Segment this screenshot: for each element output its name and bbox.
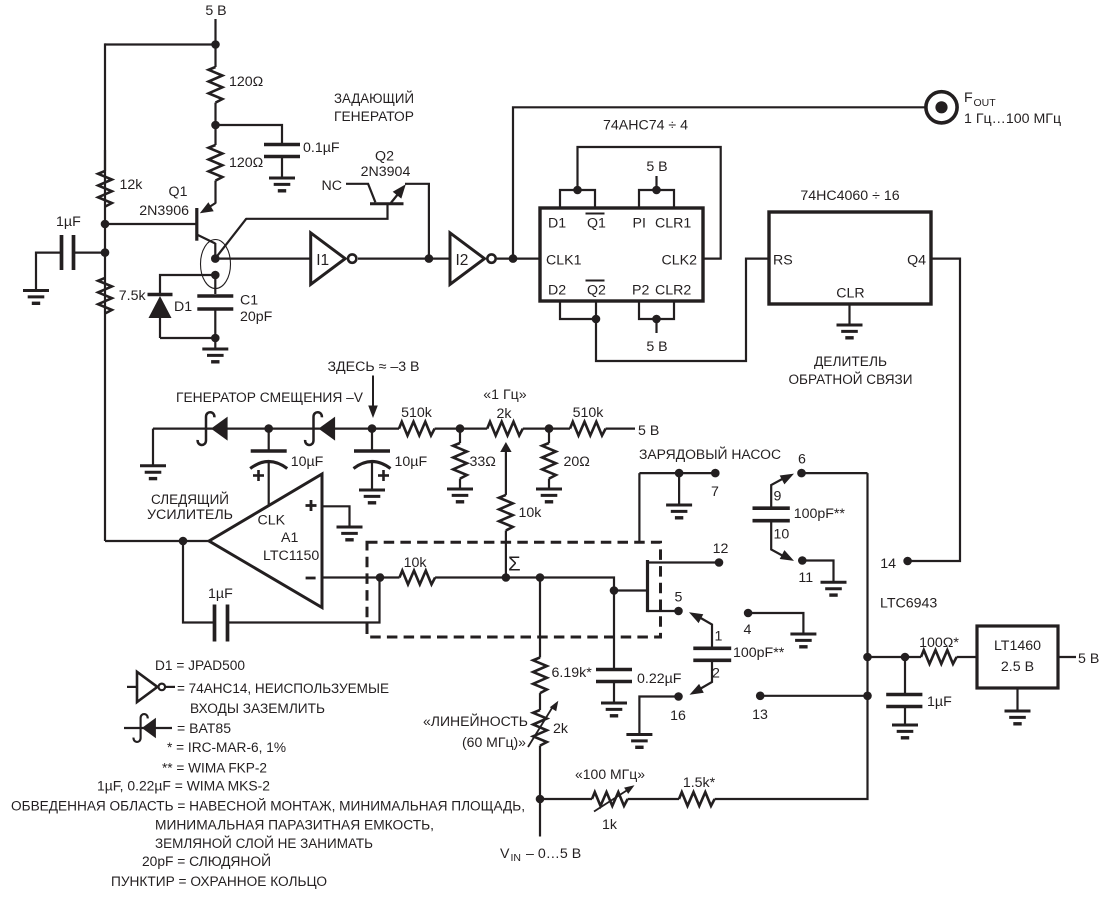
node pin13 — [756, 692, 765, 701]
wire output — [105, 540, 209, 542]
node sum junction — [502, 573, 511, 582]
resistor 120ohm lower — [209, 125, 264, 192]
wire plus input — [322, 506, 350, 527]
wire Q4 to pin14 — [910, 259, 960, 561]
label 5V at CLR2 — [646, 339, 667, 355]
pin label P2 — [632, 283, 649, 299]
resistor 6.19k — [533, 578, 592, 711]
svg-text:13: 13 — [752, 707, 768, 723]
svg-text:CLR2: CLR2 — [655, 283, 691, 299]
node junction PICLR1 — [652, 186, 661, 195]
wire top-left horizontal — [105, 43, 216, 45]
legend area line1 — [11, 797, 525, 815]
wire minus input — [322, 576, 400, 578]
pin label D2 — [548, 283, 566, 299]
node collector junction — [211, 254, 220, 263]
label 74HC4060 title — [800, 188, 899, 204]
resistor 100ohm — [919, 635, 959, 664]
label 74AHC74 title — [603, 118, 688, 134]
svg-text:D2: D2 — [548, 283, 566, 299]
svg-text:4: 4 — [744, 622, 752, 638]
svg-text:74AHC74 ÷ 4: 74AHC74 ÷ 4 — [603, 118, 688, 134]
svg-text:1k: 1k — [602, 817, 618, 833]
label sigma — [508, 553, 521, 576]
wire 5V stem — [214, 19, 216, 45]
svg-text:ОБВЕДЕННАЯ ОБЛАСТЬ = НАВЕСНОЙ: ОБВЕДЕННАЯ ОБЛАСТЬ = НАВЕСНОЙ МОНТАЖ, МИ… — [11, 797, 525, 815]
svg-text:10µF: 10µF — [291, 454, 324, 470]
svg-text:Q2: Q2 — [587, 283, 606, 299]
IC U2 74HC4060 box — [769, 212, 931, 304]
label here -3V — [327, 359, 419, 375]
wire reg output — [1058, 656, 1076, 658]
svg-text:33Ω: 33Ω — [470, 454, 496, 470]
svg-text:C1: C1 — [240, 293, 258, 309]
wire pin7 row — [639, 472, 715, 474]
legend dashed — [111, 874, 327, 890]
capacitor 0.1uF — [264, 140, 340, 157]
wire reg gnd stem — [1016, 688, 1018, 711]
label pin10 — [774, 527, 790, 543]
legend inverter text — [177, 681, 389, 717]
ground at pin7 — [666, 505, 692, 518]
pin label CLK1 — [546, 253, 582, 269]
label pin7 — [711, 484, 719, 500]
legend WIMA FKP — [162, 761, 267, 777]
svg-text:«100 МГц»: «100 МГц» — [575, 767, 645, 783]
svg-text:2N3904: 2N3904 — [361, 164, 411, 180]
svg-text:Q1: Q1 — [169, 184, 188, 200]
svg-text:D1: D1 — [548, 216, 566, 232]
svg-text:74HC4060 ÷ 16: 74HC4060 ÷ 16 — [800, 188, 899, 204]
svg-text:14: 14 — [880, 556, 896, 572]
svg-text:Q4: Q4 — [907, 253, 926, 269]
label pin16 — [670, 708, 686, 724]
potentiometer 1k 100MHz — [540, 767, 645, 833]
svg-text:1µF, 0.22µF = WIMA MKS-2: 1µF, 0.22µF = WIMA MKS-2 — [97, 779, 270, 795]
ground under C1 — [202, 349, 228, 362]
wire rail to 100ohm — [868, 656, 922, 658]
svg-text:ДЕЛИТЕЛЬ: ДЕЛИТЕЛЬ — [814, 354, 887, 370]
svg-text:F: F — [964, 90, 973, 106]
svg-text:– 0…5 В: – 0…5 В — [526, 846, 581, 862]
svg-text:OUT: OUT — [974, 97, 997, 109]
node pin16 — [674, 692, 683, 701]
node junction rail pin13 — [863, 692, 872, 701]
node junction 5V rail — [211, 40, 220, 49]
inverter I2 — [450, 233, 496, 285]
svg-text:D1 = JPAD500: D1 = JPAD500 — [155, 658, 245, 674]
wire Q2 emitter drop — [405, 184, 429, 259]
resistor 120ohm upper — [209, 45, 264, 126]
wire D1-Q1 bracket — [560, 190, 595, 208]
node junction D2Q2 — [592, 315, 601, 324]
label divider — [789, 354, 913, 388]
svg-text:20pF: 20pF — [240, 309, 273, 325]
wire 5V stub bottom — [655, 319, 657, 333]
wire D1 bottom — [160, 337, 215, 339]
wire to 0.1uF cap — [216, 125, 283, 145]
wire pin12 lead — [648, 561, 720, 563]
legend area line3 — [155, 834, 373, 852]
wire 0.1uF to ground — [281, 157, 283, 179]
svg-text:10: 10 — [774, 527, 790, 543]
wire Q2 to RS — [596, 259, 769, 361]
node pin6 — [797, 469, 806, 478]
legend IRC — [167, 740, 286, 756]
node junction rail reg — [863, 653, 872, 662]
op-amp A1 LTC1150 — [209, 474, 322, 608]
wire to D1 — [160, 275, 215, 293]
resistor 510k first — [399, 405, 435, 436]
regulator LT1460 box — [977, 626, 1058, 688]
wire 10k to sum — [435, 576, 540, 578]
capacitor C1 20pF — [197, 275, 272, 338]
svg-text:LT1460: LT1460 — [994, 638, 1041, 654]
svg-text:CLR: CLR — [836, 286, 864, 302]
svg-text:2k: 2k — [553, 721, 569, 737]
node junction 20ohm — [545, 424, 554, 433]
wire pin4 gnd — [748, 613, 803, 634]
potentiometer 2k 1Hz — [487, 406, 523, 495]
node pin5 — [674, 607, 683, 616]
svg-text:7.5k: 7.5k — [119, 288, 147, 304]
svg-text:I2: I2 — [456, 252, 469, 269]
IC U1 74AHC74 box — [540, 208, 703, 301]
ground under 1uF out — [892, 725, 918, 738]
ground under regulator — [1005, 711, 1031, 724]
label bias gen title — [176, 390, 364, 406]
node C1 ground junction — [211, 334, 220, 343]
wire C1 gnd stem — [214, 338, 216, 349]
svg-text:0.22µF: 0.22µF — [637, 671, 682, 687]
svg-text:IN: IN — [511, 852, 522, 864]
svg-text:(60 МГц)»: (60 МГц)» — [462, 735, 526, 751]
node junction pin7 gnd — [675, 469, 684, 478]
node junction 33ohm — [456, 424, 465, 433]
svg-text:5 В: 5 В — [646, 159, 667, 175]
svg-text:2N3906: 2N3906 — [139, 203, 189, 219]
svg-text:ЗДЕСЬ ≈ –3 В: ЗДЕСЬ ≈ –3 В — [327, 359, 419, 375]
ground under 1uF input — [23, 291, 49, 304]
svg-text:2k: 2k — [497, 406, 513, 422]
ground at pin4 — [790, 634, 816, 647]
ground at pin11 — [821, 582, 847, 595]
wire to pin bar — [614, 589, 648, 591]
svg-text:10µF: 10µF — [395, 454, 428, 470]
pin label Q2bar — [586, 281, 607, 299]
svg-text:2.5 В: 2.5 В — [1001, 659, 1034, 675]
wire pin bar — [646, 560, 649, 612]
power 5V label top — [205, 3, 226, 19]
wire sum right — [540, 578, 614, 591]
node pin14 — [903, 557, 912, 566]
legend inverter symbol — [127, 672, 175, 702]
node junction 120ohm mid — [211, 121, 220, 130]
label cap2 pin2 — [712, 666, 720, 682]
svg-text:ЗЕМЛЯНОЙ СЛОЙ НЕ ЗАНИМАТЬ: ЗЕМЛЯНОЙ СЛОЙ НЕ ЗАНИМАТЬ — [155, 834, 373, 852]
label 5V out — [1078, 651, 1099, 667]
capacitor 100pF flying upper — [753, 506, 846, 522]
wire I1 to I2 — [358, 258, 450, 260]
svg-text:6: 6 — [798, 452, 806, 468]
svg-text:5 В: 5 В — [646, 339, 667, 355]
ground under CLR — [837, 325, 863, 338]
svg-text:* = IRC-MAR-6, 1%: * = IRC-MAR-6, 1% — [167, 740, 286, 756]
svg-text:100pF**: 100pF** — [733, 645, 785, 661]
wire P2-CLR2 bracket — [639, 301, 674, 319]
node junction base tap — [101, 220, 110, 229]
label pin12 — [713, 541, 729, 557]
svg-text:PI: PI — [633, 216, 646, 232]
svg-text:5 В: 5 В — [638, 423, 659, 439]
wire bias row left end — [153, 428, 399, 430]
diode BAT85 first — [198, 412, 228, 445]
node junction Q2 emitter — [425, 254, 434, 263]
ground at plus input — [337, 527, 363, 540]
svg-text:V: V — [500, 846, 510, 862]
wire bias left drop — [152, 429, 154, 466]
svg-text:Q1: Q1 — [587, 216, 606, 232]
label oscillator title — [334, 89, 414, 125]
svg-text:ОБРАТНОЙ СВЯЗИ: ОБРАТНОЙ СВЯЗИ — [789, 370, 913, 388]
node pin11 — [798, 556, 807, 565]
svg-text:ВХОДЫ ЗАЗЕМЛИТЬ: ВХОДЫ ЗАЗЕМЛИТЬ — [190, 701, 325, 717]
svg-text:ЗАДАЮЩИЙ: ЗАДАЮЩИЙ — [334, 89, 414, 107]
label pin9 — [774, 489, 782, 505]
label pin13 — [752, 707, 768, 723]
svg-text:I1: I1 — [316, 252, 329, 269]
pin label RS — [773, 253, 793, 269]
diode D1 JPAD500 — [148, 295, 193, 339]
svg-text:9: 9 — [774, 489, 782, 505]
label charge pump title — [639, 445, 781, 463]
svg-text:20pF = СЛЮДЯНОЙ: 20pF = СЛЮДЯНОЙ — [142, 852, 271, 870]
resistor 10k vertical — [499, 495, 542, 578]
potentiometer 2k linearity — [528, 701, 569, 837]
node junction VIN — [536, 795, 545, 804]
svg-text:1µF: 1µF — [208, 586, 233, 602]
svg-text:2: 2 — [712, 666, 720, 682]
svg-text:Q2: Q2 — [375, 149, 394, 165]
node junction I2 out — [509, 254, 518, 263]
resistor 10k summing — [400, 555, 436, 584]
pin label Q1bar — [586, 214, 607, 232]
svg-text:1.5k*: 1.5k* — [683, 775, 716, 791]
label pin4 — [744, 622, 752, 638]
wire pin7 gnd stem — [678, 473, 680, 505]
node pin4 — [744, 609, 753, 618]
node pin12 — [715, 558, 724, 567]
resistor 1.5k — [628, 775, 716, 806]
svg-text:CLK1: CLK1 — [546, 253, 582, 269]
svg-text:120Ω: 120Ω — [229, 74, 263, 90]
svg-text:11: 11 — [798, 570, 813, 586]
ground under 33ohm — [447, 489, 473, 502]
svg-text:CLK: CLK — [258, 513, 286, 529]
wire pin13 to rail — [760, 695, 867, 697]
node junction 6.19k top — [536, 573, 545, 582]
svg-text:20Ω: 20Ω — [564, 454, 590, 470]
node pin7 — [711, 469, 720, 478]
wire 100ohm to reg — [957, 656, 977, 658]
svg-text:16: 16 — [670, 708, 686, 724]
label pin6 — [798, 452, 806, 468]
wire PI-CLR1 bracket — [639, 190, 674, 208]
resistor 12k — [98, 150, 143, 207]
svg-text:D1: D1 — [174, 299, 192, 315]
legend 20pF — [142, 852, 271, 870]
label 1Hz — [483, 387, 527, 403]
svg-text:CLR1: CLR1 — [655, 216, 691, 232]
wire I2 out — [497, 258, 540, 260]
wire fout riser — [513, 107, 925, 258]
label cap2 pin1 — [715, 629, 723, 645]
wire flying cap top arm — [771, 474, 794, 507]
capacitor 0.22uF — [596, 670, 682, 704]
wire to right rail — [715, 473, 868, 799]
legend BAT85 text — [177, 721, 231, 737]
wire CLR stub — [848, 304, 850, 325]
label 5V at CLR1 — [646, 159, 667, 175]
node junction minus — [376, 573, 385, 582]
svg-text:1: 1 — [715, 629, 723, 645]
svg-text:5 В: 5 В — [1078, 651, 1099, 667]
wire guard drop — [638, 473, 640, 542]
node junction P2CLR2 — [652, 315, 661, 324]
pin label CLK2 — [662, 253, 698, 269]
ground under 0.22uF — [601, 703, 627, 716]
svg-text:УСИЛИТЕЛЬ: УСИЛИТЕЛЬ — [147, 507, 233, 523]
label pin11 — [798, 570, 813, 586]
label LTC6943 — [880, 596, 937, 612]
arrow here — [368, 376, 378, 419]
capacitor 1uF out — [886, 657, 952, 725]
svg-text:P2: P2 — [632, 283, 649, 299]
label linearity — [423, 712, 528, 751]
svg-text:1µF: 1µF — [56, 214, 81, 230]
resistor 20ohm — [542, 429, 590, 489]
wire left rail vertical — [104, 43, 106, 541]
wire pin16 gnd — [639, 697, 678, 735]
wire pin5 lead — [648, 610, 679, 612]
wire 0.22uF drop — [613, 591, 615, 670]
pin label CLR — [836, 286, 864, 302]
svg-text:120Ω: 120Ω — [229, 155, 263, 171]
svg-text:ЗАРЯДОВЫЙ НАСОС: ЗАРЯДОВЫЙ НАСОС — [639, 445, 781, 463]
guard ring dashed box — [367, 542, 661, 637]
ground under 0.1uF — [269, 178, 295, 191]
svg-text:12: 12 — [713, 541, 729, 557]
node junction output — [179, 537, 188, 546]
node junction 0.22uF — [610, 586, 619, 595]
ellipse highlight — [201, 240, 231, 289]
svg-text:5: 5 — [675, 590, 683, 606]
svg-text:CLK2: CLK2 — [662, 253, 698, 269]
svg-text:100Ω*: 100Ω* — [919, 635, 959, 651]
wire pin6 to rail — [802, 472, 868, 474]
svg-text:ГЕНЕРАТОР: ГЕНЕРАТОР — [334, 109, 414, 125]
pin label PI — [633, 216, 646, 232]
ground at pin16 — [626, 735, 652, 748]
label FOUT — [964, 90, 1061, 127]
svg-text:1 Гц…100 МГц: 1 Гц…100 МГц — [964, 111, 1061, 127]
svg-text:ГЕНЕРАТОР СМЕЩЕНИЯ –V: ГЕНЕРАТОР СМЕЩЕНИЯ –V — [176, 390, 364, 406]
node junction D1Q1 — [573, 186, 582, 195]
svg-text:10k: 10k — [404, 555, 428, 571]
svg-text:LTC6943: LTC6943 — [880, 596, 937, 612]
resistor 7.5k — [98, 278, 146, 314]
diode BAT85 second — [305, 412, 335, 445]
node emitter junction — [211, 271, 220, 280]
wire flying cap bottom arm — [771, 522, 794, 561]
svg-text:= 74AHC14, НЕИСПОЛЬЗУЕМЫЕ: = 74AHC14, НЕИСПОЛЬЗУЕМЫЕ — [177, 681, 389, 697]
wire D2-Q2 bracket — [560, 301, 596, 319]
node junction 10uF1 — [264, 424, 273, 433]
label 5V bias — [638, 423, 659, 439]
wire 510k to pot — [435, 428, 488, 430]
wire to 5V right — [606, 428, 635, 430]
svg-text:МИНИМАЛЬНАЯ ПАРАЗИТНАЯ ЕМКОСТЬ: МИНИМАЛЬНАЯ ПАРАЗИТНАЯ ЕМКОСТЬ, — [155, 818, 434, 834]
svg-text:«1 Гц»: «1 Гц» — [483, 387, 527, 403]
svg-text:** = WIMA FKP-2: ** = WIMA FKP-2 — [162, 761, 267, 777]
svg-text:LTC1150: LTC1150 — [263, 548, 319, 564]
node junction 1uF out — [901, 653, 910, 662]
pin label D1 — [548, 216, 566, 232]
wire pin11 gnd — [802, 561, 833, 583]
legend BAT85 symbol — [124, 714, 172, 742]
svg-text:= BAT85: = BAT85 — [177, 721, 231, 737]
resistor 33ohm — [453, 429, 496, 489]
svg-text:СЛЕДЯЩИЙ: СЛЕДЯЩИЙ — [151, 490, 229, 508]
transistor Q1 2N3906 — [139, 184, 215, 259]
ground bias left — [140, 466, 166, 479]
pin label CLR2 — [655, 283, 691, 299]
pin label CLR1 — [655, 216, 691, 232]
svg-text:0.1µF: 0.1µF — [303, 140, 340, 156]
svg-text:6.19k*: 6.19k* — [552, 665, 593, 681]
wire Q1 to I1 — [215, 258, 311, 260]
inverter I1 — [311, 233, 357, 285]
node junction -3V — [368, 424, 377, 433]
legend D1 — [155, 658, 245, 674]
svg-text:10k: 10k — [519, 505, 543, 521]
svg-text:510k: 510k — [401, 405, 433, 421]
legend area line2 — [155, 818, 434, 834]
wire Q1 feedback to CLK2 — [578, 147, 721, 259]
capacitor 100pF flying lower — [693, 645, 784, 661]
svg-text:ПУНКТИР = ОХРАННОЕ КОЛЬЦО: ПУНКТИР = ОХРАННОЕ КОЛЬЦО — [111, 874, 327, 890]
capacitor 1uF input — [36, 214, 105, 291]
svg-text:1µF: 1µF — [927, 694, 952, 710]
svg-text:RS: RS — [773, 253, 793, 269]
svg-text:NC: NC — [322, 178, 343, 194]
svg-text:A1: A1 — [281, 530, 298, 546]
pin label Q4 — [907, 253, 926, 269]
wire pot to 510k2 — [523, 428, 570, 430]
wire flying cap2 top arm — [689, 612, 712, 647]
label pin5 — [675, 590, 683, 606]
transistor Q2 2N3904 — [216, 149, 410, 258]
node junction 1uF tap — [101, 248, 110, 257]
ground under 10uF second — [359, 490, 385, 503]
svg-text:100pF**: 100pF** — [794, 506, 846, 522]
legend WIMA MKS — [97, 779, 270, 795]
capacitor 10uF second — [354, 429, 428, 490]
ground under 20ohm — [536, 489, 562, 502]
wire Q1 base — [105, 223, 196, 225]
svg-text:5 В: 5 В — [205, 3, 226, 19]
label VIN — [500, 846, 581, 864]
